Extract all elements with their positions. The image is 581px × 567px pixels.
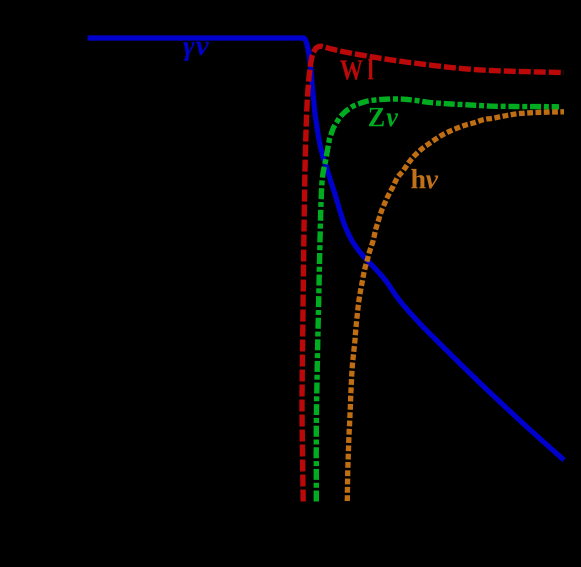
curve W-l (red long-dashed)	[302, 46, 564, 501]
label Wl (red)	[340, 59, 373, 80]
label h-nu (orange)	[411, 169, 438, 189]
label gamma-nu (blue)	[183, 42, 209, 61]
curve gamma-nu (blue solid)	[88, 38, 565, 460]
curve Z-nu (green dash-dot)	[316, 99, 559, 502]
curve h-nu (orange dotted)	[347, 112, 564, 501]
label Z-nu (green)	[369, 108, 398, 127]
